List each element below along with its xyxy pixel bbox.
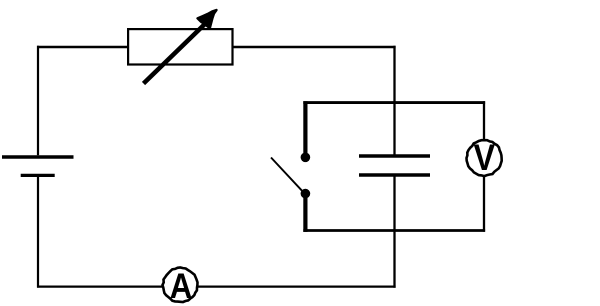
wire: right vertical from top wire down to capacitor top plate [393, 46, 395, 156]
svg-text:V: V [474, 136, 496, 178]
wire: left vertical from top wire down to battery [37, 46, 39, 156]
battery cell: long positive plate [2, 155, 74, 158]
rheostat R: arrowhead [198, 10, 217, 28]
switch S: upper contact dot [301, 153, 311, 163]
svg-text:A: A [170, 267, 193, 306]
ammeter A: meter circle [163, 268, 198, 303]
wire: parallel-section bottom rail [303, 229, 485, 232]
switch S: open lever arm [271, 158, 303, 192]
wire: bottom horizontal through ammeter position [37, 285, 396, 287]
wire: right vertical from capacitor bottom plate down to bottom wire [393, 175, 395, 288]
switch S: upper thick lead [303, 101, 307, 153]
rheostat R: rectangle body [128, 29, 232, 64]
rheostat R: diagonal arrow shaft [144, 22, 208, 84]
wire: parallel-section top rail [303, 101, 485, 104]
wire: left vertical from battery down to bottom wire [37, 177, 39, 288]
wire: top-right horizontal from rheostat to right branch [233, 46, 396, 48]
capacitor C: bottom plate [359, 173, 430, 176]
switch S: lower contact dot [301, 189, 311, 199]
voltmeter V: meter circle [467, 140, 502, 176]
battery cell: short negative plate [21, 174, 55, 177]
wire: top-left horizontal from battery branch to rheostat [37, 46, 128, 48]
switch S: lower thick lead [303, 196, 307, 232]
capacitor C: top plate [359, 154, 430, 157]
wire: voltmeter branch vertical [483, 101, 485, 232]
